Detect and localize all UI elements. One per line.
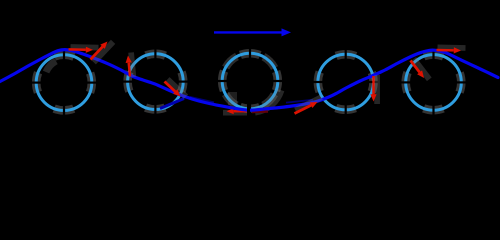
orbit circle O2	[128, 54, 184, 110]
extra halo diagonals circle O3	[222, 53, 278, 109]
orbit circle O4	[318, 54, 374, 110]
ghost gray patch upper-left inside circle O1	[46, 61, 56, 72]
tick mark S of circle O3 over wave	[247, 103, 250, 114]
ghost gray patch left of circle O3	[228, 92, 237, 105]
velocity arrow E2 at crest of circle O5	[438, 45, 466, 51]
tick marks circle O5	[400, 49, 467, 116]
orbit circle O3	[222, 53, 278, 109]
orbit circle O1 gray halo	[36, 55, 92, 111]
ghost arrow D1 into left of circle O4	[296, 97, 322, 110]
velocity arrow D2 at right of circle O4	[374, 75, 380, 104]
wave surface curve	[0, 50, 498, 111]
ghost arrow B2 into right of circle O2	[168, 79, 187, 96]
orbit circle O5 gray halo	[406, 55, 462, 111]
velocity arrow B1 at left of circle O2	[131, 53, 133, 78]
ghost arrow A2 right of circle O1	[94, 42, 113, 63]
wave ghost segment above trough left	[190, 97, 214, 103]
orbit circle O5	[406, 55, 462, 111]
orbit circle O4 gray halo	[318, 54, 374, 110]
tick marks circle O1	[31, 49, 98, 116]
tick marks circle O3	[217, 48, 284, 115]
dark red smudge under trough	[252, 110, 268, 113]
ghost gray arc lower-right of circle O3	[255, 90, 281, 112]
velocity arrow C1 at trough of circle O3 (under wave)	[223, 110, 247, 116]
tick marks circle O2	[122, 48, 189, 115]
velocity arrow A1 at crest of circle O1	[71, 44, 99, 50]
wave propagation arrow at top	[214, 31, 282, 33]
wave ghost segment near circle O2 lower right	[160, 99, 184, 109]
tick marks circle O4	[312, 49, 379, 116]
ghost arrow E1 into upper left of circle O5	[414, 59, 430, 79]
orbit circle O3 gray halo	[222, 53, 278, 109]
orbit circle O2 gray halo	[128, 54, 184, 110]
wave ghost segment above wave right of trough	[286, 100, 313, 103]
orbit circle O1	[36, 55, 92, 111]
